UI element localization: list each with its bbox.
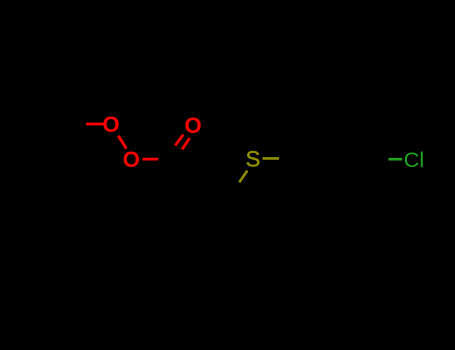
carbonyl C=O double bond, red halves — [175, 135, 183, 146]
svg-text:O: O — [184, 113, 201, 138]
tert-butyl group (carbon skeleton, invisible black) — [34, 96, 86, 140]
svg-text:Cl: Cl — [404, 148, 424, 172]
svg-text:S: S — [246, 147, 261, 172]
svg-text:O: O — [123, 147, 140, 172]
wire: bond C(tBu)-O1, red half — [86, 123, 104, 126]
wire: bond C(phenyl)-Cl, green half — [389, 158, 403, 161]
svg-text:O: O — [102, 112, 119, 137]
wire: bond S-C(phenyl), olive half — [263, 157, 280, 160]
benzene ring 1 (invisible black skeleton) — [176, 159, 227, 261]
benzene ring 2 (invisible black skeleton) — [279, 126, 371, 191]
wire: bond O2-C(carbonyl), red half — [143, 158, 159, 161]
wire: bond O1-O2, red — [118, 136, 126, 149]
wire: bond C(ring)-S, olive half — [239, 171, 247, 183]
